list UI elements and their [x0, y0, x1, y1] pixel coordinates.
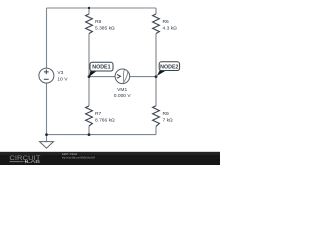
wire left rail lower	[46, 83, 48, 141]
watermark text	[62, 152, 96, 160]
node junction dot top	[88, 7, 90, 9]
voltage source V3	[39, 68, 54, 83]
svg-text:NODE2: NODE2	[160, 64, 178, 70]
wire left rail upper	[46, 8, 48, 68]
svg-text:lua67 / Circuit: lua67 / Circuit	[62, 152, 77, 156]
svg-text:4.3 kΩ: 4.3 kΩ	[163, 25, 178, 31]
voltmeter VM1	[115, 69, 130, 84]
node NODE2 flag	[157, 62, 180, 76]
resistor R9	[153, 106, 160, 127]
wire voltmeter right	[130, 76, 156, 78]
svg-text:LAB: LAB	[27, 159, 41, 164]
wire top rail	[47, 7, 157, 9]
wire right rail mid	[155, 34, 157, 106]
svg-text:VM1: VM1	[117, 87, 127, 93]
svg-text:10 V: 10 V	[57, 76, 68, 82]
svg-text:NODE1: NODE1	[92, 65, 110, 71]
svg-text:http://circuitlab.com/65j9a7pk: http://circuitlab.com/65j9a7pkur5o4	[62, 157, 96, 160]
svg-text:R8: R8	[95, 19, 102, 25]
node junction dot bottom middle	[88, 133, 91, 136]
label R6 value	[163, 19, 178, 31]
node junction dot NODE1	[88, 75, 91, 78]
wire right rail upper	[155, 8, 157, 14]
resistor R7	[86, 106, 93, 126]
wire middle rail upper	[88, 8, 90, 14]
svg-text:5.385 kΩ: 5.385 kΩ	[95, 25, 115, 31]
svg-text:7 kΩ: 7 kΩ	[163, 118, 174, 124]
wire bottom rail	[47, 134, 157, 136]
label R9 value	[163, 111, 174, 123]
node junction dot NODE2	[155, 75, 158, 78]
label V3 value	[57, 70, 68, 82]
watermark bar	[0, 151, 220, 165]
resistor R6	[153, 14, 160, 34]
svg-text:R9: R9	[163, 111, 170, 117]
svg-text:R6: R6	[163, 19, 170, 25]
wire right rail lower	[155, 126, 157, 134]
resistor R8	[86, 14, 93, 34]
ground	[40, 142, 54, 149]
wire middle rail mid	[88, 34, 90, 77]
label VM1 value	[114, 87, 132, 99]
wire voltmeter left	[89, 76, 115, 78]
node junction dot bottom left	[45, 133, 48, 136]
svg-text:V3: V3	[57, 70, 63, 76]
label R8 value	[95, 19, 115, 31]
svg-text:R7: R7	[95, 111, 102, 117]
svg-text:0.000 V: 0.000 V	[114, 93, 132, 99]
logo CircuitLab	[9, 155, 40, 164]
label R7 value	[95, 111, 115, 123]
wire middle rail lower	[88, 77, 90, 135]
node NODE1 flag	[89, 62, 113, 77]
svg-text:8.766 kΩ: 8.766 kΩ	[95, 118, 115, 124]
